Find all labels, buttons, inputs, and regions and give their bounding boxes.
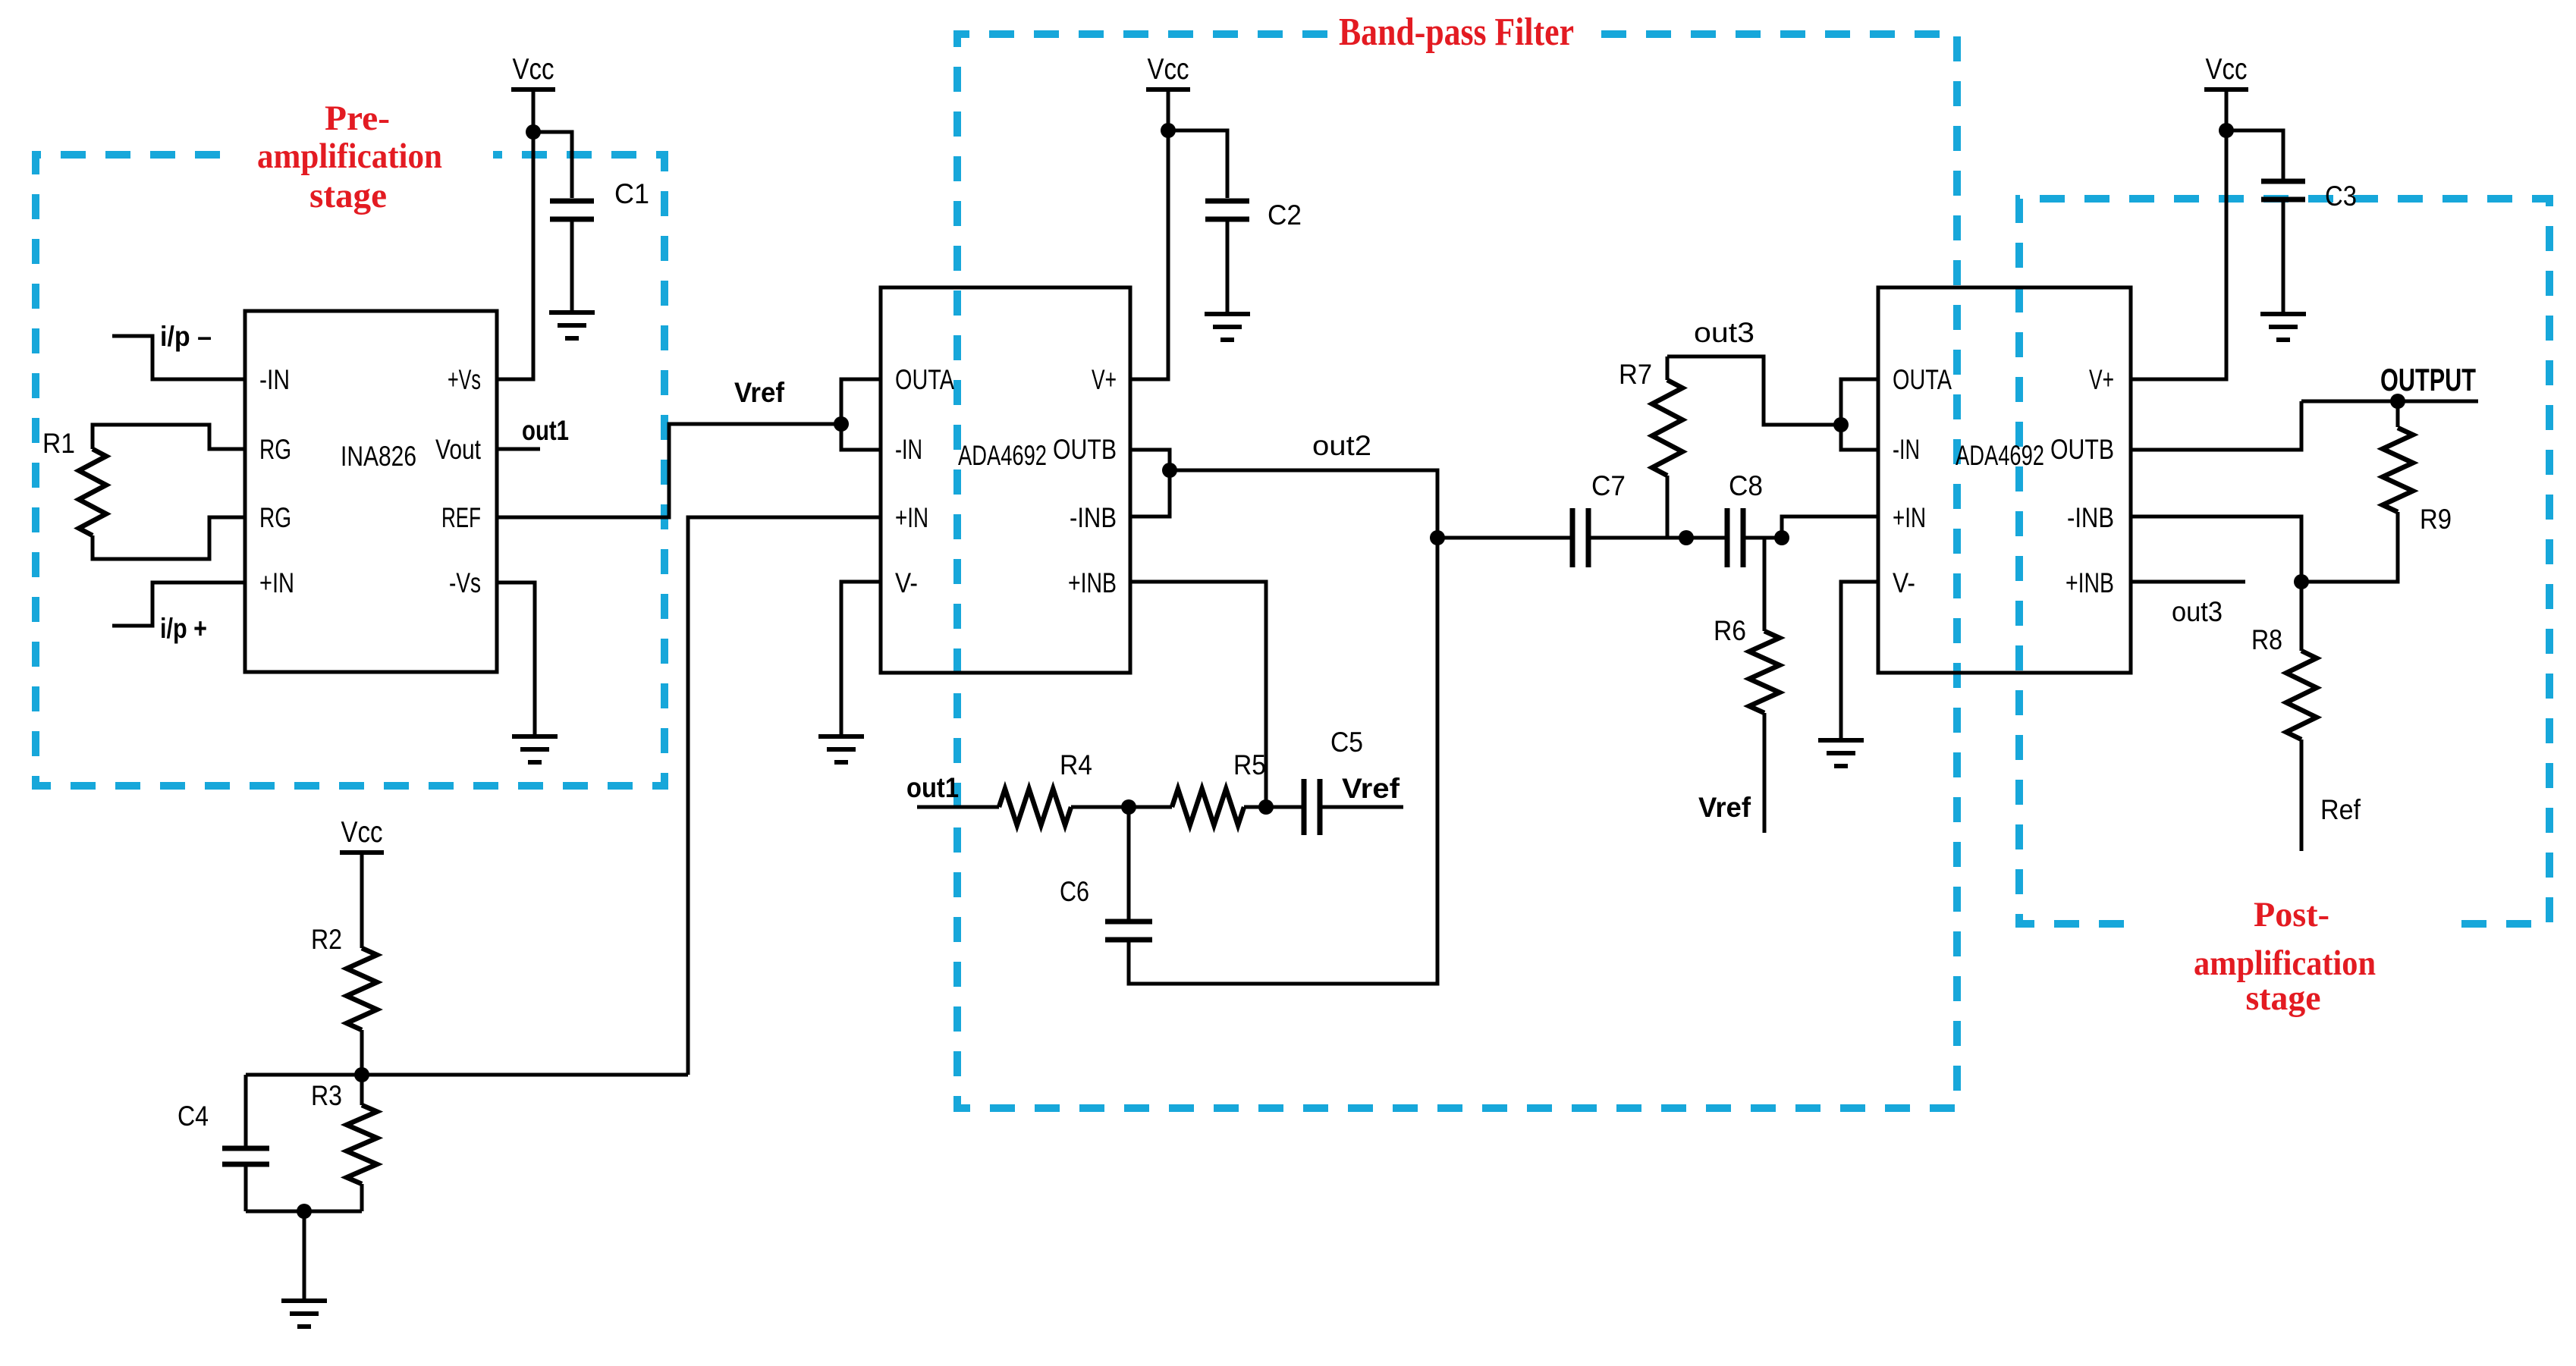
wire U2 +INB down to R5/C5 node <box>1130 582 1266 807</box>
wire U3 OUTA to -IN feedback <box>1841 379 1878 450</box>
svg-text:Vout: Vout <box>435 434 482 465</box>
svg-text:C1: C1 <box>614 178 649 209</box>
svg-text:C6: C6 <box>1060 876 1089 907</box>
resistor R8 <box>2286 651 2317 740</box>
wire R6 top <box>1763 538 1767 631</box>
wire R6 to Vref stub <box>1763 713 1767 833</box>
wire R1 to U1 RG bottom <box>93 517 245 559</box>
power Vcc (U1 supply) <box>511 53 555 89</box>
wire R8 top <box>2300 582 2304 651</box>
wire U3 OUTB up to OUTPUT rail <box>2131 401 2301 450</box>
resistor R9 <box>2383 428 2413 512</box>
node junction R4/R5/C6 <box>1121 799 1136 815</box>
svg-text:RG: RG <box>259 434 291 465</box>
wire U3 V+ to Vcc <box>2131 89 2226 379</box>
svg-text:OUTA: OUTA <box>895 364 954 395</box>
wire C8 to U3 +IN <box>1745 517 1878 538</box>
resistor R3 <box>347 1105 377 1184</box>
svg-text:Vref: Vref <box>1698 792 1751 823</box>
wire U2 V+ to Vcc <box>1130 89 1168 379</box>
power Vcc (U3 supply) <box>2204 53 2248 89</box>
svg-text:+INB: +INB <box>2066 567 2114 598</box>
svg-text:stage: stage <box>309 176 387 215</box>
ground (U1 -Vs) <box>512 736 558 762</box>
wire U3 -INB to node <box>2131 517 2301 582</box>
svg-text:R2: R2 <box>311 924 342 955</box>
svg-text:C8: C8 <box>1729 470 1763 501</box>
wire U1 +Vs to Vcc <box>497 89 533 379</box>
wire U3 +INB stub (out3) <box>2131 580 2245 584</box>
capacitor C7 <box>1572 508 1588 567</box>
capacitor C2 <box>1205 201 1249 219</box>
svg-text:+INB: +INB <box>1068 567 1117 598</box>
ground (C1) <box>549 312 595 338</box>
node junction out2/C7 branch <box>1430 530 1445 545</box>
op-amp U2 ADA4692 body <box>881 287 1130 673</box>
node junction R2/R3 (divider out) <box>354 1067 369 1082</box>
capacitor C1 <box>550 201 594 219</box>
node junction out2/OUTB feedback <box>1162 463 1177 478</box>
svg-text:Vcc: Vcc <box>2206 53 2248 86</box>
svg-text:INA826: INA826 <box>341 441 416 472</box>
svg-text:Vcc: Vcc <box>1148 53 1189 86</box>
resistor R5 <box>1172 789 1244 825</box>
wire divider node horizontal <box>246 1073 688 1077</box>
svg-text:R8: R8 <box>2251 624 2282 655</box>
svg-text:ADA4692: ADA4692 <box>958 440 1047 471</box>
svg-text:ADA4692: ADA4692 <box>1956 440 2044 471</box>
node junction Vcc/C2 <box>1161 123 1176 138</box>
svg-text:Vcc: Vcc <box>513 53 554 86</box>
wire R3 to bottom rail <box>360 1184 364 1211</box>
wire Vcc to C1 <box>533 132 572 198</box>
op-amp U1 INA826 body <box>245 311 497 672</box>
svg-text:R4: R4 <box>1060 749 1092 780</box>
wire out1 to R4 <box>917 805 999 809</box>
node junction C8/+IN/R6 <box>1774 530 1789 545</box>
wire R4 to node A <box>1071 805 1129 809</box>
node junction Vcc/C3 <box>2219 123 2234 138</box>
ground (C3) <box>2260 314 2306 340</box>
Post-amplification stage dashed box <box>2019 199 2549 924</box>
wire U2 OUTA to -IN feedback <box>841 379 881 450</box>
wire U1 -Vs to ground <box>497 583 535 736</box>
capacitor C8 <box>1727 508 1743 567</box>
wire divider node up to U2 +IN <box>688 517 881 1075</box>
svg-text:RG: RG <box>259 502 291 533</box>
svg-text:Vref: Vref <box>734 377 785 408</box>
svg-text:-IN: -IN <box>259 364 290 395</box>
wire i/p+ input to U1 +IN <box>112 583 245 626</box>
svg-text:OUTA: OUTA <box>1893 364 1952 395</box>
svg-text:+IN: +IN <box>895 502 928 533</box>
wire C7 to C8 <box>1590 536 1726 540</box>
wire Vcc to C3 <box>2226 130 2283 179</box>
svg-text:C5: C5 <box>1330 727 1363 758</box>
svg-text:i/p +: i/p + <box>160 613 207 644</box>
ground (U3 V-) <box>1818 740 1864 766</box>
node junction out3/U3 OUTA feedback <box>1833 417 1849 432</box>
svg-text:-INB: -INB <box>2067 502 2114 533</box>
wire C4 to bottom rail <box>244 1167 248 1211</box>
wire U2 OUTB to -INB feedback <box>1130 450 1170 517</box>
capacitor C3 <box>2261 181 2305 199</box>
svg-text:C4: C4 <box>177 1101 209 1132</box>
svg-text:OUTB: OUTB <box>1053 434 1117 465</box>
wire C2 to ground <box>1226 221 1230 314</box>
svg-text:R6: R6 <box>1714 615 1746 646</box>
svg-text:C7: C7 <box>1591 470 1626 501</box>
svg-text:C3: C3 <box>2325 181 2357 212</box>
wire C4 branch down <box>244 1075 248 1148</box>
svg-text:Post-: Post- <box>2254 895 2329 934</box>
resistor R4 <box>999 789 1071 825</box>
wire R7 top to out3 corner <box>1666 356 1670 380</box>
wire Vcc to C2 <box>1168 130 1227 198</box>
svg-text:-INB: -INB <box>1070 502 1117 533</box>
wire node A to R5 <box>1129 805 1172 809</box>
op-amp U3 ADA4692 body <box>1878 287 2131 673</box>
svg-text:V+: V+ <box>2089 364 2114 395</box>
svg-text:out1: out1 <box>906 772 959 803</box>
svg-text:stage: stage <box>2246 978 2321 1018</box>
node junction OUTPUT/R9 <box>2390 394 2405 409</box>
capacitor C5 <box>1304 779 1320 835</box>
node junction R7/wire <box>1679 530 1694 545</box>
svg-text:amplification: amplification <box>2194 944 2376 983</box>
wire R9 bottom to -INB node <box>2301 512 2398 582</box>
wire C3 to ground <box>2282 202 2285 314</box>
svg-text:R9: R9 <box>2420 504 2452 535</box>
wire U1 REF to Vref net <box>497 424 841 517</box>
resistor R2 <box>347 948 377 1030</box>
svg-text:amplification: amplification <box>257 137 442 176</box>
power Vcc (divider) <box>340 816 384 853</box>
svg-text:Ref: Ref <box>2320 794 2361 825</box>
resistor R7 <box>1652 380 1682 476</box>
svg-text:OUTPUT: OUTPUT <box>2380 362 2476 397</box>
svg-text:V+: V+ <box>1092 364 1117 395</box>
wire U2 V- to ground <box>841 582 881 736</box>
wire U3 V- to ground <box>1841 582 1878 740</box>
svg-text:R5: R5 <box>1233 749 1266 780</box>
Band-pass Filter dashed box <box>957 34 1957 1108</box>
svg-text:Vref: Vref <box>1342 773 1400 804</box>
svg-text:Pre-: Pre- <box>325 99 390 138</box>
node junction R5/C5/+INB <box>1258 799 1274 815</box>
svg-text:R7: R7 <box>1619 359 1652 390</box>
wire node A down to C6 <box>1127 807 1131 922</box>
svg-text:Vcc: Vcc <box>341 816 383 849</box>
svg-text:R1: R1 <box>42 428 75 459</box>
node junction Vref/OUTA feedback <box>834 416 849 432</box>
wire R7 bottom <box>1666 476 1670 538</box>
Pre-amplification stage dashed box <box>36 155 664 786</box>
resistor R1 <box>79 449 106 535</box>
svg-text:+IN: +IN <box>259 567 294 598</box>
wire R8 to Ref stub <box>2300 740 2304 851</box>
wire R5 to node B <box>1244 805 1302 809</box>
wire i/p- input to U1 -IN <box>112 336 245 379</box>
wire out3 to U3 -IN node <box>1667 356 1841 425</box>
wire C1 to ground <box>570 221 574 312</box>
svg-text:out1: out1 <box>522 415 569 446</box>
svg-text:out2: out2 <box>1312 430 1371 461</box>
wire Vcc to R2 <box>360 853 364 948</box>
svg-text:R3: R3 <box>311 1080 342 1111</box>
wire bottom rail (C4/R3) <box>246 1210 362 1214</box>
wire out2 net to C6 bottom <box>1129 470 1437 984</box>
svg-text:+IN: +IN <box>1893 502 1926 533</box>
node junction Vcc/C1 <box>526 124 541 140</box>
svg-text:-IN: -IN <box>1893 434 1920 465</box>
svg-text:Band-pass Filter: Band-pass Filter <box>1339 11 1574 54</box>
svg-text:+Vs: +Vs <box>448 364 481 395</box>
svg-text:out3: out3 <box>2172 596 2223 627</box>
capacitor C4 <box>222 1148 269 1164</box>
ground (divider) <box>281 1301 327 1327</box>
wire out2 node to C7 <box>1437 536 1572 540</box>
svg-text:C2: C2 <box>1268 199 1302 231</box>
svg-text:V-: V- <box>1893 567 1915 598</box>
svg-text:-IN: -IN <box>895 434 922 465</box>
svg-text:REF: REF <box>441 502 481 533</box>
power Vcc (U2 supply) <box>1146 53 1190 89</box>
svg-text:V-: V- <box>895 567 918 598</box>
wire R2 to node Vdiv <box>360 1030 364 1105</box>
node junction bottom rail/ground <box>297 1204 312 1219</box>
wire U1 Vout stub (out1) <box>497 447 540 451</box>
ground (U2 V-) <box>818 736 864 762</box>
wire C5 to Vref stub <box>1321 805 1403 809</box>
node junction -INB/R9/R8 <box>2294 574 2309 589</box>
ground (C2) <box>1205 314 1250 340</box>
svg-text:OUTB: OUTB <box>2050 434 2114 465</box>
svg-text:-Vs: -Vs <box>449 567 481 598</box>
wire U1 RG top to R1 <box>93 425 245 449</box>
wire bottom rail to ground <box>303 1211 306 1301</box>
wire R9 top <box>2396 401 2400 427</box>
wire OUTPUT rail <box>2301 400 2478 404</box>
svg-text:i/p –: i/p – <box>160 321 212 352</box>
capacitor C6 <box>1105 922 1152 940</box>
svg-text:out3: out3 <box>1694 317 1755 348</box>
resistor R6 <box>1749 631 1780 713</box>
